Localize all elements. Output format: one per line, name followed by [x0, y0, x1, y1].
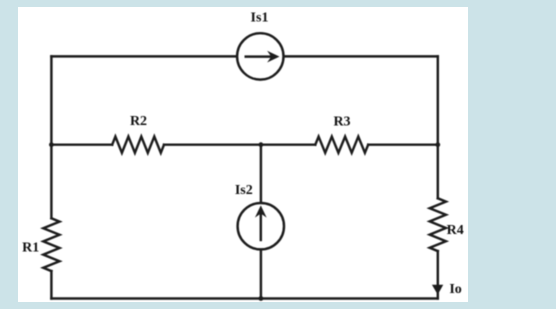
wire right rail lower (R4 bottom to bottom wire)	[437, 251, 439, 298]
wire bottom	[51, 297, 437, 299]
wire middle left (left rail to R2)	[51, 143, 112, 145]
resistor R1	[43, 218, 59, 271]
svg-text:R4: R4	[447, 223, 464, 238]
junction node D (middle rail / bottom wire)	[259, 296, 264, 301]
svg-text:Is2: Is2	[235, 183, 253, 198]
wire top left (node between R1 top and Is1)	[51, 55, 237, 57]
current source Is2 (circle)	[238, 203, 284, 249]
resistor R2	[112, 137, 164, 153]
junction node B (middle rail / middle wire)	[259, 142, 264, 147]
current source Is1 (circle)	[237, 33, 283, 79]
wire left rail upper	[50, 56, 52, 218]
wire middle rail lower (Is2 to bottom wire)	[260, 249, 262, 298]
wire middle rail upper (node B to Is2)	[260, 145, 262, 203]
svg-text:Is1: Is1	[251, 10, 269, 25]
white schematic canvas	[18, 7, 468, 302]
junction node A (left rail / middle wire)	[49, 142, 54, 147]
svg-text:Io: Io	[449, 282, 461, 297]
svg-text:R1: R1	[22, 240, 39, 255]
svg-text:R2: R2	[130, 114, 147, 129]
arrow Io (output current direction)	[433, 285, 443, 293]
resistor R4	[430, 198, 446, 251]
wire middle right (R3 to right rail)	[368, 143, 438, 145]
wire left rail lower (R1 bottom to bottom wire)	[50, 271, 52, 298]
wire right rail upper	[437, 56, 439, 198]
wire top right (Is1 to right rail)	[283, 55, 437, 57]
junction node C (right rail / middle wire)	[435, 142, 440, 147]
wire middle center (R2 to R3 through node B)	[164, 143, 315, 145]
svg-text:R3: R3	[333, 114, 350, 129]
resistor R3	[315, 137, 368, 153]
